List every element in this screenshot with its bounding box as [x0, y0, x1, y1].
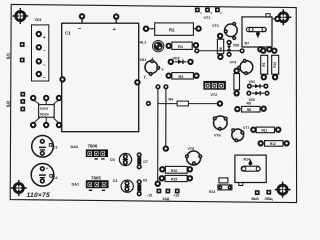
- svg-text:~: ~: [43, 62, 46, 67]
- resistor R13: [160, 167, 164, 171]
- svg-text:R10: R10: [171, 169, 177, 173]
- regulator DA2 package: [86, 149, 108, 157]
- svg-text:VD1: VD1: [35, 18, 42, 22]
- svg-text:у: у: [144, 74, 146, 78]
- svg-text:R10: R10: [273, 62, 277, 68]
- svg-text:VD4: VD4: [249, 80, 255, 84]
- VD1 pad 3: [37, 59, 41, 63]
- svg-text:ОБЩ: ОБЩ: [265, 197, 274, 201]
- svg-text:−15: −15: [147, 194, 153, 198]
- wire 2: [164, 85, 168, 89]
- VD2 top pad 3: [57, 96, 61, 100]
- svg-text:DA1: DA1: [72, 183, 80, 187]
- svg-text:R11: R11: [262, 129, 268, 133]
- svg-text:C2: C2: [53, 176, 58, 180]
- mounting hole bottom-left: [11, 180, 27, 196]
- rectifier VD1 body: [32, 25, 49, 81]
- svg-text:VT2: VT2: [211, 93, 218, 97]
- VD1 pad 1: [37, 32, 41, 36]
- svg-text:C5: C5: [110, 158, 115, 162]
- output pad ZAD: [166, 189, 171, 194]
- trimmer R7 body: [242, 17, 272, 47]
- svg-text:C4: C4: [113, 179, 118, 183]
- svg-text:R2: R2: [169, 28, 175, 33]
- VD2 bottom pad 2: [44, 123, 48, 127]
- transistor VT8: [219, 178, 228, 183]
- connector Sh2 pad 3: [20, 107, 25, 112]
- regulator DA1 package: [86, 180, 109, 188]
- mounting hole top-left: [12, 8, 28, 24]
- svg-text:HL1: HL1: [140, 41, 147, 45]
- svg-text:VT3: VT3: [212, 24, 219, 28]
- resistor R15: [160, 176, 164, 180]
- VD2 top stems: [34, 100, 59, 105]
- svg-text:КЦ402: КЦ402: [40, 107, 49, 111]
- connector Sh2 pad 2: [20, 99, 25, 104]
- capacitor C3: [32, 136, 54, 158]
- svg-text:C3: C3: [53, 146, 58, 150]
- resistor R5 vertical: [234, 69, 238, 73]
- C1 right edge pad: [135, 80, 139, 84]
- svg-text:VT1: VT1: [204, 16, 211, 20]
- capacitor C2: [31, 164, 54, 187]
- svg-text:R3: R3: [179, 75, 184, 79]
- svg-text:R12: R12: [270, 142, 276, 146]
- capacitor C7: [137, 153, 141, 157]
- resistor R10 vertical: [272, 49, 276, 53]
- resistor R11: [251, 128, 255, 132]
- transistor VT6: [214, 116, 228, 130]
- svg-text:VD6: VD6: [233, 44, 239, 48]
- connector Sh2 pad 1: [20, 92, 25, 97]
- VD1 pad 4: [37, 72, 41, 76]
- svg-text:+15: +15: [174, 194, 180, 198]
- svg-text:VD3: VD3: [173, 56, 180, 60]
- VD2 bottom pad 3: [57, 123, 61, 127]
- svg-text:ЗАД: ЗАД: [163, 197, 170, 201]
- resistor R1: [167, 44, 171, 48]
- output pad -15: [157, 189, 162, 194]
- svg-text:ВЫХ: ВЫХ: [252, 197, 260, 201]
- svg-text:R7: R7: [245, 42, 250, 46]
- svg-text:DA2: DA2: [71, 145, 79, 149]
- svg-text:7806: 7806: [88, 144, 98, 149]
- C1 left edge pad: [60, 77, 64, 81]
- svg-text:R1: R1: [178, 44, 184, 49]
- svg-text:R15: R15: [171, 177, 177, 181]
- resistor R9 vertical: [261, 49, 265, 53]
- svg-text:~: ~: [43, 48, 46, 53]
- output pad VYKH: [255, 190, 260, 195]
- transistor VT2 package: [203, 81, 226, 90]
- long wire 1: [156, 85, 160, 89]
- svg-text:VS1: VS1: [140, 58, 147, 62]
- svg-text:7805: 7805: [91, 175, 101, 180]
- svg-text:−: −: [78, 25, 82, 32]
- svg-text:VD2●: VD2●: [40, 112, 49, 116]
- mounting hole top-right: [275, 9, 291, 25]
- R7 pads below: [258, 47, 262, 51]
- svg-text:R9: R9: [262, 63, 266, 67]
- diode VD5: [247, 91, 251, 95]
- C1 top pad minus: [80, 14, 84, 18]
- bridge VD2 body: [39, 105, 55, 118]
- svg-text:C6: C6: [143, 179, 147, 183]
- resistor R6 vertical: [218, 34, 222, 38]
- svg-text:R13: R13: [209, 190, 215, 194]
- svg-text:VT4: VT4: [230, 60, 237, 64]
- svg-text:R14: R14: [244, 158, 251, 162]
- resistor R2: [144, 27, 148, 31]
- svg-text:R8: R8: [247, 108, 251, 112]
- svg-text:R8: R8: [247, 101, 251, 105]
- capacitor C1 body: [62, 23, 139, 132]
- VD2 bottom pad 1: [31, 123, 35, 127]
- connector Sh1 pad 2: [20, 58, 25, 63]
- svg-text:VT6: VT6: [214, 133, 221, 137]
- transistor VT1 pads: [195, 7, 200, 12]
- mounting hole bottom-right: [275, 182, 291, 198]
- svg-text:б: б: [211, 11, 213, 15]
- resistor R3: [167, 74, 171, 78]
- svg-text:R4: R4: [169, 98, 174, 102]
- output pad +15: [175, 189, 180, 194]
- C1 top pad plus: [114, 14, 118, 18]
- svg-text:а: а: [162, 67, 164, 71]
- svg-text:110×75: 110×75: [27, 192, 51, 199]
- VD2 top pad 1: [31, 96, 35, 100]
- svg-text:VT7: VT7: [243, 126, 249, 130]
- connector Sh1 pad 1: [20, 42, 25, 47]
- board outline: [10, 4, 296, 202]
- svg-text:−: −: [43, 75, 46, 81]
- via pad: [147, 102, 151, 106]
- diode VD6 vertical: [227, 41, 231, 45]
- svg-text:Ш1: Ш1: [6, 52, 11, 59]
- trimmer R14: [235, 155, 266, 182]
- VD2 top pad 2: [44, 96, 48, 100]
- svg-text:C7: C7: [143, 160, 147, 164]
- pad right of R7: [272, 18, 275, 20]
- resistor R12: [259, 141, 263, 145]
- wire node: [195, 49, 199, 53]
- svg-text:C1: C1: [65, 31, 71, 36]
- svg-text:+: +: [43, 35, 46, 41]
- VD1 pad 2: [37, 45, 41, 49]
- VD2 bottom stems: [34, 117, 59, 123]
- svg-text:Ш2: Ш2: [6, 100, 11, 107]
- wire: [199, 50, 241, 52]
- output pad OBSHCH: [266, 190, 271, 195]
